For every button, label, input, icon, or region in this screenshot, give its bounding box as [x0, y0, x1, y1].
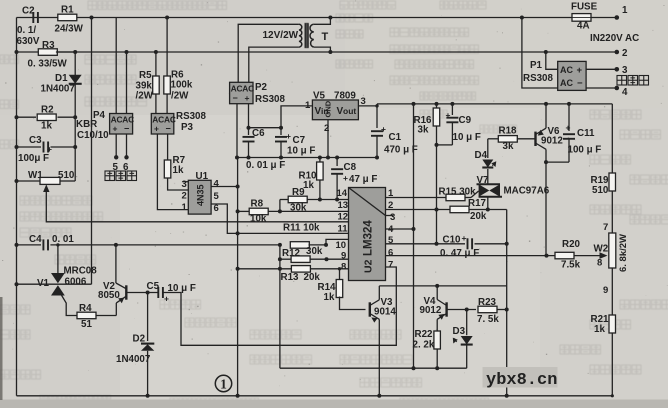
svg-text:+: +: [286, 131, 291, 141]
svg-text:7: 7: [388, 260, 393, 271]
svg-text:630V: 630V: [17, 36, 40, 47]
svg-text:4N35: 4N35: [196, 184, 206, 206]
svg-text:2. 2k: 2. 2k: [413, 340, 435, 351]
node D1-C3 junction: [73, 145, 77, 149]
svg-text:−: −: [233, 93, 238, 103]
svg-text:FUSE: FUSE: [571, 2, 598, 13]
svg-text:R3: R3: [42, 40, 55, 51]
svg-text:MAC97A6: MAC97A6: [504, 186, 550, 197]
svg-text:100μ F: 100μ F: [18, 153, 49, 164]
svg-text:R5: R5: [139, 70, 152, 81]
svg-text:7.5k: 7.5k: [561, 260, 581, 271]
svg-text:100k: 100k: [171, 80, 193, 91]
svg-text:V1: V1: [37, 278, 50, 289]
transistor V4 9012: [420, 286, 477, 331]
svg-text:1k: 1k: [173, 165, 184, 176]
svg-text:RS308: RS308: [176, 111, 207, 122]
svg-text:IN220V AC: IN220V AC: [590, 33, 639, 44]
resistor R16 3k: [414, 102, 440, 145]
node V6 collector junction: [544, 160, 569, 164]
svg-text:W1: W1: [28, 170, 43, 181]
svg-text:9: 9: [603, 285, 608, 296]
resistor R2 1k: [15, 105, 76, 132]
wire U2 pin2 to R17: [386, 208, 451, 212]
resistor R10 1k: [299, 156, 324, 200]
terminal 5 armature: [113, 134, 119, 173]
label jie-dian-shu armature: [105, 171, 137, 181]
node V2 base D2 junction: [146, 291, 150, 295]
transistor V6 9012: [536, 102, 564, 162]
resistor R13 20k: [236, 266, 349, 283]
node gnd C6 junction: [247, 156, 251, 160]
svg-text:W2: W2: [594, 244, 609, 255]
svg-text:0. 1/: 0. 1/: [17, 25, 36, 36]
svg-text:6006: 6006: [65, 277, 87, 288]
svg-text:3: 3: [390, 212, 395, 223]
wire gnd column x237: [236, 158, 240, 398]
svg-text:P1: P1: [530, 60, 543, 71]
svg-text:1: 1: [182, 202, 188, 213]
svg-text:470 μ F: 470 μ F: [384, 145, 418, 156]
svg-text:12: 12: [338, 212, 349, 223]
wire 7809 vout +9V rail: [358, 104, 612, 108]
svg-text:6. 8k/2W: 6. 8k/2W: [618, 234, 629, 272]
svg-text:P3: P3: [181, 122, 194, 133]
resistor R5 39k/2W: [136, 52, 160, 114]
svg-text:14: 14: [337, 188, 348, 199]
svg-text:510: 510: [58, 170, 75, 181]
transformer T 12V/2W: [238, 18, 330, 83]
wire U2 pin3 stub: [386, 215, 394, 217]
resistor R6 100k/2W: [164, 18, 193, 114]
capacitor C5 10uF: [147, 281, 196, 304]
svg-text:24/3W: 24/3W: [55, 24, 84, 35]
node gnd C7 junction: [279, 156, 283, 160]
svg-text:C5: C5: [147, 281, 160, 292]
svg-text:+: +: [462, 233, 467, 243]
capacitor C4 0.01: [15, 234, 116, 250]
capacitor C10 0.47uF: [440, 233, 509, 259]
svg-text:C9: C9: [459, 115, 472, 126]
svg-text:9014: 9014: [374, 307, 396, 318]
node bottom right corner: [611, 394, 614, 397]
svg-text:LM324: LM324: [363, 220, 375, 256]
svg-text:0. 01 μ F: 0. 01 μ F: [246, 160, 285, 171]
svg-text:12V/2W: 12V/2W: [263, 30, 299, 41]
wire left rail vertical: [16, 18, 18, 396]
svg-text:R17: R17: [468, 198, 487, 209]
svg-text:47 μ F: 47 μ F: [349, 174, 377, 185]
svg-text:1N4007: 1N4007: [116, 354, 151, 365]
wire R16 down to C10 row: [436, 145, 438, 244]
svg-text:4A: 4A: [577, 21, 590, 32]
svg-text:510: 510: [592, 185, 609, 196]
node neutral junction x331: [328, 50, 332, 54]
wire U1 pin4 to gnd column: [211, 185, 240, 189]
label circled figure 1: [215, 375, 231, 391]
svg-text:D3: D3: [453, 326, 466, 337]
svg-text:1: 1: [622, 5, 628, 16]
svg-text:+: +: [343, 173, 348, 183]
wire bottom collector bus: [280, 366, 467, 370]
capacitor C9 10uF: [446, 102, 481, 145]
node top rail junction x91: [90, 16, 94, 20]
wire C4 row to ladder: [116, 244, 280, 246]
label jie-li-ci excitation: [617, 76, 649, 86]
svg-text:R2: R2: [41, 105, 54, 116]
wire U2 pin5 to C10: [386, 242, 466, 246]
svg-text:+: +: [577, 65, 583, 76]
svg-text:R20: R20: [562, 239, 581, 250]
node C4row-V2 junction: [114, 243, 118, 247]
capacitor C2 0.1/630V: [17, 6, 40, 48]
svg-text:9012: 9012: [541, 136, 563, 147]
svg-text:R4: R4: [79, 303, 92, 314]
resistor R13a 30k: [278, 256, 349, 263]
node top rail junction x167: [165, 16, 169, 20]
diode D2 1N4007: [116, 293, 154, 398]
bottom page edge strip: [0, 297, 668, 408]
resistor R18 3k: [488, 126, 536, 153]
svg-text:U2: U2: [363, 259, 375, 273]
node top rail junction x331: [328, 16, 332, 20]
resistor R22 2.2k: [413, 329, 441, 368]
svg-text:C3: C3: [29, 135, 42, 146]
svg-text:+: +: [381, 124, 386, 134]
transistor V3 9014: [370, 286, 397, 398]
potentiometer W2 6.8k/2W: [594, 222, 630, 296]
svg-text:1N4007: 1N4007: [41, 84, 76, 95]
wire W2 to R21: [611, 268, 613, 315]
wire bottom rail: [17, 395, 613, 397]
wire P1 plus to terminal 3: [586, 65, 628, 76]
svg-text:U1: U1: [196, 171, 209, 182]
resistor R20 7.5k: [555, 239, 608, 271]
svg-text:1k: 1k: [324, 292, 335, 303]
svg-text:AC: AC: [560, 65, 573, 75]
wire U2 pin1 to R15: [386, 197, 447, 199]
svg-text:+: +: [154, 124, 159, 134]
svg-text:RS308: RS308: [523, 73, 554, 84]
resistor R17 20k: [450, 198, 507, 222]
svg-text:T: T: [322, 31, 329, 43]
bridge rectifier P3 RS308: [151, 111, 206, 134]
diode D1 1N4007: [41, 52, 82, 117]
svg-text:8: 8: [597, 258, 602, 269]
wire R3 row to D1: [56, 50, 77, 54]
svg-text:D1: D1: [55, 73, 68, 84]
bridge rectifier P4 KBR C10/10: [76, 18, 134, 142]
svg-text:C1: C1: [389, 132, 402, 143]
node R9-R10 junction: [318, 198, 322, 202]
wire ladder vertical x280: [279, 245, 281, 368]
wire V1 anode feed: [56, 243, 59, 273]
svg-text:KBR: KBR: [76, 119, 97, 130]
resistor R1 24/3W: [55, 5, 84, 35]
node top rail junction x522: [520, 16, 524, 20]
svg-text:4: 4: [214, 179, 220, 190]
svg-text:C2: C2: [22, 6, 35, 17]
wire P2 plus to 7809 Vin: [249, 106, 313, 130]
bridge rectifier P1 RS308: [522, 18, 586, 91]
svg-text:out: out: [343, 106, 356, 116]
svg-text:R8: R8: [251, 199, 264, 210]
node neutral junction x156: [154, 50, 158, 54]
resistor R8 10k: [236, 199, 349, 225]
label IN220V AC: [590, 33, 639, 44]
capacitor C8 47uF: [331, 156, 377, 200]
wire V3 collector bus: [379, 284, 506, 288]
svg-text:0. 33/5W: 0. 33/5W: [28, 59, 68, 70]
wire 7809 gnd pin2: [326, 120, 330, 160]
svg-text:ybx8.cn: ybx8.cn: [486, 371, 557, 390]
svg-text:1k: 1k: [41, 121, 52, 132]
svg-text:7. 5k: 7. 5k: [477, 314, 499, 325]
svg-text:R11 10k: R11 10k: [283, 223, 320, 234]
svg-text:AC: AC: [560, 78, 573, 88]
svg-text:100 μ F: 100 μ F: [568, 145, 602, 156]
svg-text:3: 3: [182, 179, 187, 190]
svg-text:C8: C8: [344, 162, 357, 173]
wire top rail fuse to terminal 1: [591, 17, 617, 19]
potentiometer W1 510: [15, 170, 76, 184]
svg-text:−: −: [577, 78, 583, 89]
svg-text:+: +: [245, 93, 250, 103]
resistor R19 510: [591, 104, 616, 233]
svg-text:13: 13: [338, 200, 349, 211]
wire P2 minus to gnd rail: [235, 104, 239, 160]
svg-text:D4: D4: [475, 150, 488, 161]
svg-text:3k: 3k: [503, 141, 514, 152]
svg-text:R1: R1: [61, 5, 74, 16]
wire U1 pin3 stub: [183, 181, 188, 183]
svg-text:10 μ F: 10 μ F: [287, 146, 315, 157]
svg-text:3: 3: [622, 65, 628, 76]
capacitor C1 470uF: [371, 106, 418, 160]
diode D3: [453, 310, 473, 369]
svg-text:R23: R23: [478, 297, 497, 308]
node R9-C8 junction: [335, 198, 339, 202]
svg-text:RS308: RS308: [255, 94, 286, 105]
optocoupler U1 4N35: [182, 171, 220, 214]
svg-text:+: +: [113, 124, 118, 134]
svg-text:C4: C4: [29, 234, 42, 245]
svg-text:4: 4: [622, 87, 628, 98]
terminal 1: [615, 5, 629, 20]
resistor R9 30k: [280, 187, 349, 214]
svg-text:R9: R9: [292, 187, 305, 198]
wire C5 to U2 pin7: [163, 267, 396, 345]
svg-text:+: +: [446, 110, 451, 120]
wire W1 wiper to pin12 line: [43, 184, 348, 221]
resistor R14 1k: [318, 267, 366, 309]
triac V7 MAC97A6: [477, 169, 550, 210]
svg-text:C10/10: C10/10: [77, 130, 109, 141]
svg-text:3k: 3k: [418, 125, 429, 136]
svg-text:R22: R22: [415, 329, 434, 340]
wire P2 plus down: [247, 104, 251, 135]
wire R9 left drop: [279, 200, 281, 212]
capacitor C7 10uF: [275, 128, 315, 158]
svg-text:R13: R13: [281, 272, 300, 283]
resistor R23 7.5k: [477, 297, 509, 325]
wire mains drop x91: [91, 18, 93, 285]
svg-text:−: −: [166, 124, 171, 134]
wire R16 C9 join: [435, 143, 453, 147]
svg-text:+: +: [566, 123, 571, 133]
wire dc ground rail: [237, 157, 377, 159]
svg-text:10k: 10k: [250, 214, 267, 225]
svg-text:−: −: [124, 124, 129, 134]
svg-text:R18: R18: [499, 126, 518, 137]
wire long vertical x413: [412, 102, 416, 370]
svg-text:8050: 8050: [98, 290, 120, 301]
svg-text:20k: 20k: [470, 211, 487, 222]
wire neutral rail y52: [17, 51, 618, 53]
wire U2 pin6 to R20: [386, 254, 556, 258]
wire V6 collector down: [545, 162, 547, 256]
svg-text:GND: GND: [324, 100, 333, 117]
svg-text:R15 30k: R15 30k: [439, 187, 477, 198]
capacitor C11 100uF: [563, 102, 601, 162]
svg-text:C7: C7: [293, 135, 306, 146]
svg-text:10 μ F: 10 μ F: [453, 132, 481, 143]
terminal 6 armature: [123, 134, 129, 173]
wire U2 pin4 to x413: [386, 227, 416, 231]
svg-text:C11: C11: [577, 128, 595, 139]
resistor R4 51: [77, 303, 116, 330]
svg-text:V5: V5: [313, 91, 326, 102]
regulator V5 7809: [305, 91, 366, 135]
svg-text:1: 1: [305, 100, 311, 111]
wire V1 row: [15, 282, 92, 286]
wire feedback vertical x507: [505, 210, 509, 398]
terminal 2: [615, 48, 629, 59]
svg-text:7: 7: [603, 222, 608, 233]
svg-text:MRC08: MRC08: [64, 266, 98, 277]
svg-text:1k: 1k: [303, 180, 314, 191]
resistor R7 1k: [164, 134, 188, 190]
svg-text:D2: D2: [133, 334, 146, 345]
wire U1 pin6 to U2 pin11 slot: [211, 204, 348, 235]
wire P3 out to U1 pin1: [157, 134, 188, 210]
wire top mains rail: [17, 17, 573, 19]
svg-text:2: 2: [622, 48, 628, 59]
svg-text:1k: 1k: [594, 324, 605, 335]
svg-text:/2W: /2W: [171, 91, 189, 102]
transistor V2 8050: [98, 245, 158, 316]
svg-text:C6: C6: [252, 128, 265, 139]
capacitor C3 100uF: [15, 135, 76, 164]
svg-text:10: 10: [336, 240, 347, 251]
resistor R21 1k: [591, 314, 616, 396]
svg-text:9: 9: [341, 251, 346, 262]
label R11 10k: [283, 223, 320, 234]
svg-text:+: +: [164, 294, 169, 304]
svg-text:51: 51: [81, 319, 92, 330]
svg-text:P2: P2: [255, 82, 268, 93]
bridge rectifier P2 RS308: [230, 82, 286, 105]
watermark ybx8.cn: [483, 367, 558, 390]
diode D4: [475, 139, 497, 168]
node neutral junction x16: [15, 50, 19, 54]
wire D1 column lower: [74, 117, 76, 181]
resistor R3 0.33/5W: [28, 40, 68, 70]
thyristor V1 MRC08 6006: [37, 266, 97, 316]
svg-text:C10: C10: [443, 235, 462, 246]
wire P1 minus to terminal 4: [586, 86, 628, 98]
svg-text:2: 2: [182, 191, 187, 202]
capacitor C6 0.01uF: [243, 128, 286, 171]
fuse FUSE 4A: [571, 2, 598, 32]
node D1-R2 junction: [73, 115, 77, 119]
svg-text:6: 6: [388, 248, 393, 259]
svg-text:/2W: /2W: [136, 91, 154, 102]
op-amp U2 LM324: [336, 188, 396, 281]
svg-text:11: 11: [338, 224, 349, 235]
svg-text:8: 8: [341, 262, 346, 273]
svg-text:0. 47 μ F: 0. 47 μ F: [440, 248, 479, 259]
svg-text:9012: 9012: [420, 305, 442, 316]
svg-text:0. 01: 0. 01: [52, 234, 74, 245]
svg-text:5: 5: [214, 191, 220, 202]
svg-text:7809: 7809: [334, 91, 356, 102]
svg-text:V7: V7: [477, 175, 490, 186]
svg-text:1: 1: [220, 377, 227, 392]
resistor R15 30k: [439, 187, 479, 201]
resistor R12 30k: [278, 239, 349, 259]
